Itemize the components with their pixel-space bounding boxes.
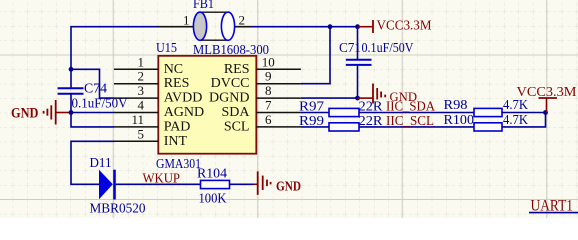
pin 4 AGND (114, 98, 204, 121)
ferrite bead FB1 (183, 0, 269, 58)
svg-text:0.1uF/50V: 0.1uF/50V (362, 41, 414, 56)
svg-text:C71: C71 (339, 41, 361, 56)
wire DVCC branch from rail down to pin 9 (301, 27, 330, 84)
wire pin 7 to R97 (301, 112, 329, 114)
svg-text:6: 6 (265, 112, 272, 127)
svg-text:3: 3 (138, 83, 145, 98)
wire to pin 4 AGND (71, 112, 114, 114)
wire AVDD jog from rail junction to pin 3 (71, 69, 114, 98)
wire UART1 (529, 212, 578, 214)
wire pin 6 to R99 (301, 126, 329, 128)
pin 7 SDA (221, 98, 300, 121)
svg-text:9: 9 (265, 69, 272, 84)
pin 2 line of FB1 (235, 26, 252, 28)
svg-text:GMA301: GMA301 (156, 157, 201, 172)
pin 11 PAD (114, 112, 190, 134)
resistor R99 (299, 114, 383, 131)
power port VCC3.3M (right) (517, 85, 578, 113)
svg-text:NC: NC (164, 62, 183, 77)
junction left rail / AVDD jog (69, 67, 74, 72)
svg-text:4.7K: 4.7K (503, 113, 528, 128)
pin 8 DGND (209, 83, 301, 106)
wire top rail left from corner to FB1 pin 1 (71, 27, 158, 89)
pin 10 RES (224, 54, 301, 77)
wire C71 bottom (357, 65, 359, 98)
svg-text:2: 2 (239, 13, 246, 28)
pin 3 AVDD (114, 83, 202, 106)
svg-text:5: 5 (138, 126, 145, 141)
svg-text:R100: R100 (444, 113, 475, 128)
svg-text:MBR0520: MBR0520 (90, 202, 146, 217)
svg-text:C74: C74 (84, 82, 107, 97)
svg-text:RES: RES (164, 76, 190, 91)
svg-text:8: 8 (265, 83, 272, 98)
svg-text:AGND: AGND (164, 105, 204, 120)
svg-text:0.1uF/50V: 0.1uF/50V (72, 96, 128, 111)
svg-text:4: 4 (138, 98, 145, 113)
wire R104 to GND (230, 183, 254, 185)
svg-text:10: 10 (262, 54, 275, 69)
capacitor C74 (58, 82, 128, 112)
wire C74 bottom to GND junction (70, 94, 72, 113)
capacitor C71 (339, 41, 414, 65)
svg-text:R98: R98 (444, 98, 468, 113)
wire R99 to R100 (359, 126, 474, 128)
junction at rail / C71 branch (355, 24, 360, 29)
junction at rail / DVCC branch (328, 24, 333, 29)
wire INT pin 5 down to diode row (71, 141, 114, 184)
svg-text:SDA: SDA (221, 105, 250, 120)
power port GND (right of R104) (254, 171, 302, 195)
wire diode cathode to R104 (116, 183, 201, 185)
svg-text:100K: 100K (199, 192, 227, 207)
svg-text:DVCC: DVCC (211, 76, 250, 91)
svg-text:INT: INT (164, 134, 188, 149)
junction C71 / pin8 / GND (355, 96, 360, 101)
svg-text:GND: GND (11, 105, 39, 121)
svg-text:FB1: FB1 (193, 0, 214, 12)
svg-text:AVDD: AVDD (164, 91, 203, 106)
svg-text:R104: R104 (197, 167, 227, 182)
power port VCC3.3M (top) (358, 18, 432, 33)
svg-text:VCC3.3M: VCC3.3M (377, 18, 433, 33)
power port GND (near C71) (358, 84, 418, 104)
wire R100 to VCC junction (502, 113, 546, 127)
svg-text:4.7K: 4.7K (503, 98, 528, 113)
bead body top/bottom lines (200, 11, 228, 13)
junction GND / AGND / PAD (69, 110, 74, 115)
diode D11 MBR0520 (90, 156, 146, 217)
svg-text:R97: R97 (299, 99, 324, 114)
IC U15 GMA301 body (156, 41, 256, 172)
wire R97 to R98 (359, 112, 474, 114)
pin 2 RES (114, 69, 189, 92)
svg-text:D11: D11 (90, 156, 112, 171)
resistor R97 (299, 99, 383, 116)
svg-text:R99: R99 (299, 114, 324, 129)
wire top rail right to VCC port (252, 26, 358, 28)
pin 6 SCL (224, 112, 301, 134)
power port GND (left) (11, 100, 71, 125)
wire C71 top (357, 27, 359, 60)
pin 1 NC (114, 54, 183, 77)
svg-text:2: 2 (138, 69, 145, 84)
bead left ellipse (shaded) (193, 12, 206, 40)
resistor R98 (444, 98, 529, 117)
svg-text:GND: GND (276, 180, 301, 195)
pin 5 INT (114, 126, 187, 149)
svg-text:1: 1 (138, 54, 145, 69)
svg-text:7: 7 (265, 98, 272, 113)
wire to pin 11 PAD (71, 113, 114, 127)
svg-text:IIC_SCL: IIC_SCL (386, 114, 434, 129)
resistor R104 (197, 167, 230, 207)
resistor R100 (444, 113, 529, 131)
svg-text:WKUP: WKUP (143, 171, 181, 186)
bead right ellipse (221, 12, 234, 40)
svg-text:IIC_SDA: IIC_SDA (386, 100, 436, 115)
svg-text:VCC3.3M: VCC3.3M (517, 85, 578, 100)
wire R98 to VCC junction (502, 112, 546, 114)
pin 1 line of FB1 (158, 26, 194, 28)
wire DGND pin 8 to junction (301, 97, 358, 99)
svg-text:11: 11 (131, 112, 144, 127)
svg-text:SCL: SCL (224, 119, 250, 134)
svg-text:DGND: DGND (209, 91, 249, 106)
junction pullups / VCC (543, 110, 548, 115)
svg-text:U15: U15 (156, 41, 177, 56)
pin 9 DVCC (211, 69, 301, 92)
svg-text:RES: RES (224, 62, 250, 77)
svg-text:PAD: PAD (164, 119, 191, 134)
svg-text:1: 1 (183, 13, 190, 28)
